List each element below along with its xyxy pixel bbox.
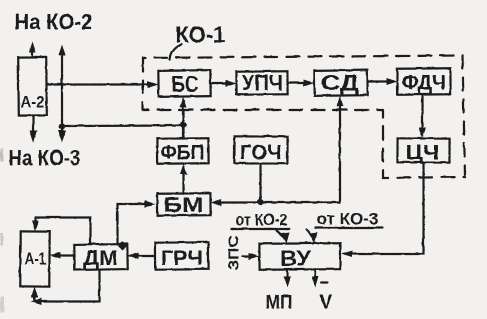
label GRCh [161,247,203,270]
label ZPS vertical [225,235,242,270]
wire DM up-left to A-1 top [32,217,91,244]
paper smudge bottom left [0,296,4,312]
label ot KO-2 [231,210,289,229]
label A-1 [24,249,46,268]
block BM [157,193,210,216]
node junction left [58,123,64,129]
svg-text:ЗПС: ЗПС [225,235,242,270]
svg-text:На КО-2: На КО-2 [14,9,92,34]
block A-1 [20,231,49,286]
svg-text:БМ: БМ [163,194,203,217]
wire GRCh to DM [127,252,155,259]
KO-1 leader curve [170,44,182,59]
svg-text:УПЧ: УПЧ [242,70,283,95]
label KO-1 [175,21,225,47]
label VU [280,246,311,271]
wire TsCh to VU [341,162,423,257]
label GOCh [240,141,282,164]
svg-text:ФБП: ФБП [160,141,204,164]
wire VU to V [312,269,319,287]
node diamond at DM top [118,241,127,250]
wire DM to A-1 [49,252,74,259]
label MP [265,292,292,313]
wire A-2 top arrow to Na KO-2 [29,41,36,57]
label FDCh [402,71,446,94]
svg-text:ФДЧ: ФДЧ [402,71,446,94]
block VU [259,243,340,270]
label SD [321,70,359,95]
wire bus to BM and SD [210,95,343,206]
paper smudge left edge [0,148,3,161]
block UPCh [236,71,287,94]
wire A-2 bottom arrow to Na KO-3 [29,115,37,142]
block BS [158,70,210,97]
block A-2 [18,57,47,115]
svg-text:ЦЧ: ЦЧ [405,141,439,164]
block GRCh [155,242,208,269]
wire BS to UPCh [210,80,236,87]
block FDCh [397,68,450,94]
wire FDCh to TsCh [419,94,426,138]
wire ot KO-2 to VU [276,230,289,243]
svg-text:от КО-3: от КО-3 [316,209,378,228]
svg-text:от КО-2: от КО-2 [235,210,287,229]
paper smudge left lower [0,233,3,245]
label FBP [160,141,204,164]
svg-text:А-2: А-2 [20,92,44,111]
svg-text:СД: СД [321,70,359,95]
label Na KO-2 [14,9,92,34]
svg-text:КО-1: КО-1 [175,21,225,47]
wire UPCh to SD [287,79,314,86]
node junction FBP line [180,121,186,127]
wire FBP to BS arrow [180,96,187,138]
block TsCh [397,138,449,162]
block GOCh [234,136,287,163]
label ot KO-3 [315,209,382,228]
wire ot KO-3 to VU [306,229,317,243]
label TsCh [405,141,439,164]
label Na KO-3 [8,145,80,170]
wire DM bottom loop to A-1 bottom [30,269,99,305]
label V dot [319,282,333,313]
block DM [74,244,127,270]
wire VU to MP [284,269,291,287]
svg-text:На КО-3: На КО-3 [8,145,80,170]
svg-text:МП: МП [265,292,292,313]
label UPCh [242,70,283,95]
dashed frame KO-1 [143,55,465,178]
label BM [163,194,203,217]
label DM [83,247,118,270]
wire vertical KO-2/KO-3 line [58,44,66,142]
svg-text:V: V [319,291,333,313]
block FBP [157,138,208,163]
svg-text:ДМ: ДМ [83,247,118,270]
svg-text:А-1: А-1 [24,249,46,268]
svg-text:ВУ: ВУ [280,246,311,271]
label BS [171,71,198,97]
wire ZPS to VU [242,253,259,260]
wire GOCh down [259,163,261,201]
label A-2 [20,92,44,111]
wire DM up to BM [117,200,155,244]
wire branch FBP-line to vertical [62,124,184,127]
wire SD to FDCh [367,78,397,85]
svg-text:ГОЧ: ГОЧ [240,141,282,164]
svg-text:БС: БС [171,71,198,97]
block SD [314,70,367,96]
wire BM to FBP [180,163,187,193]
svg-text:ГРЧ: ГРЧ [161,247,203,270]
wire A-2 to BS [46,81,158,88]
node junction GOCh [257,198,263,204]
